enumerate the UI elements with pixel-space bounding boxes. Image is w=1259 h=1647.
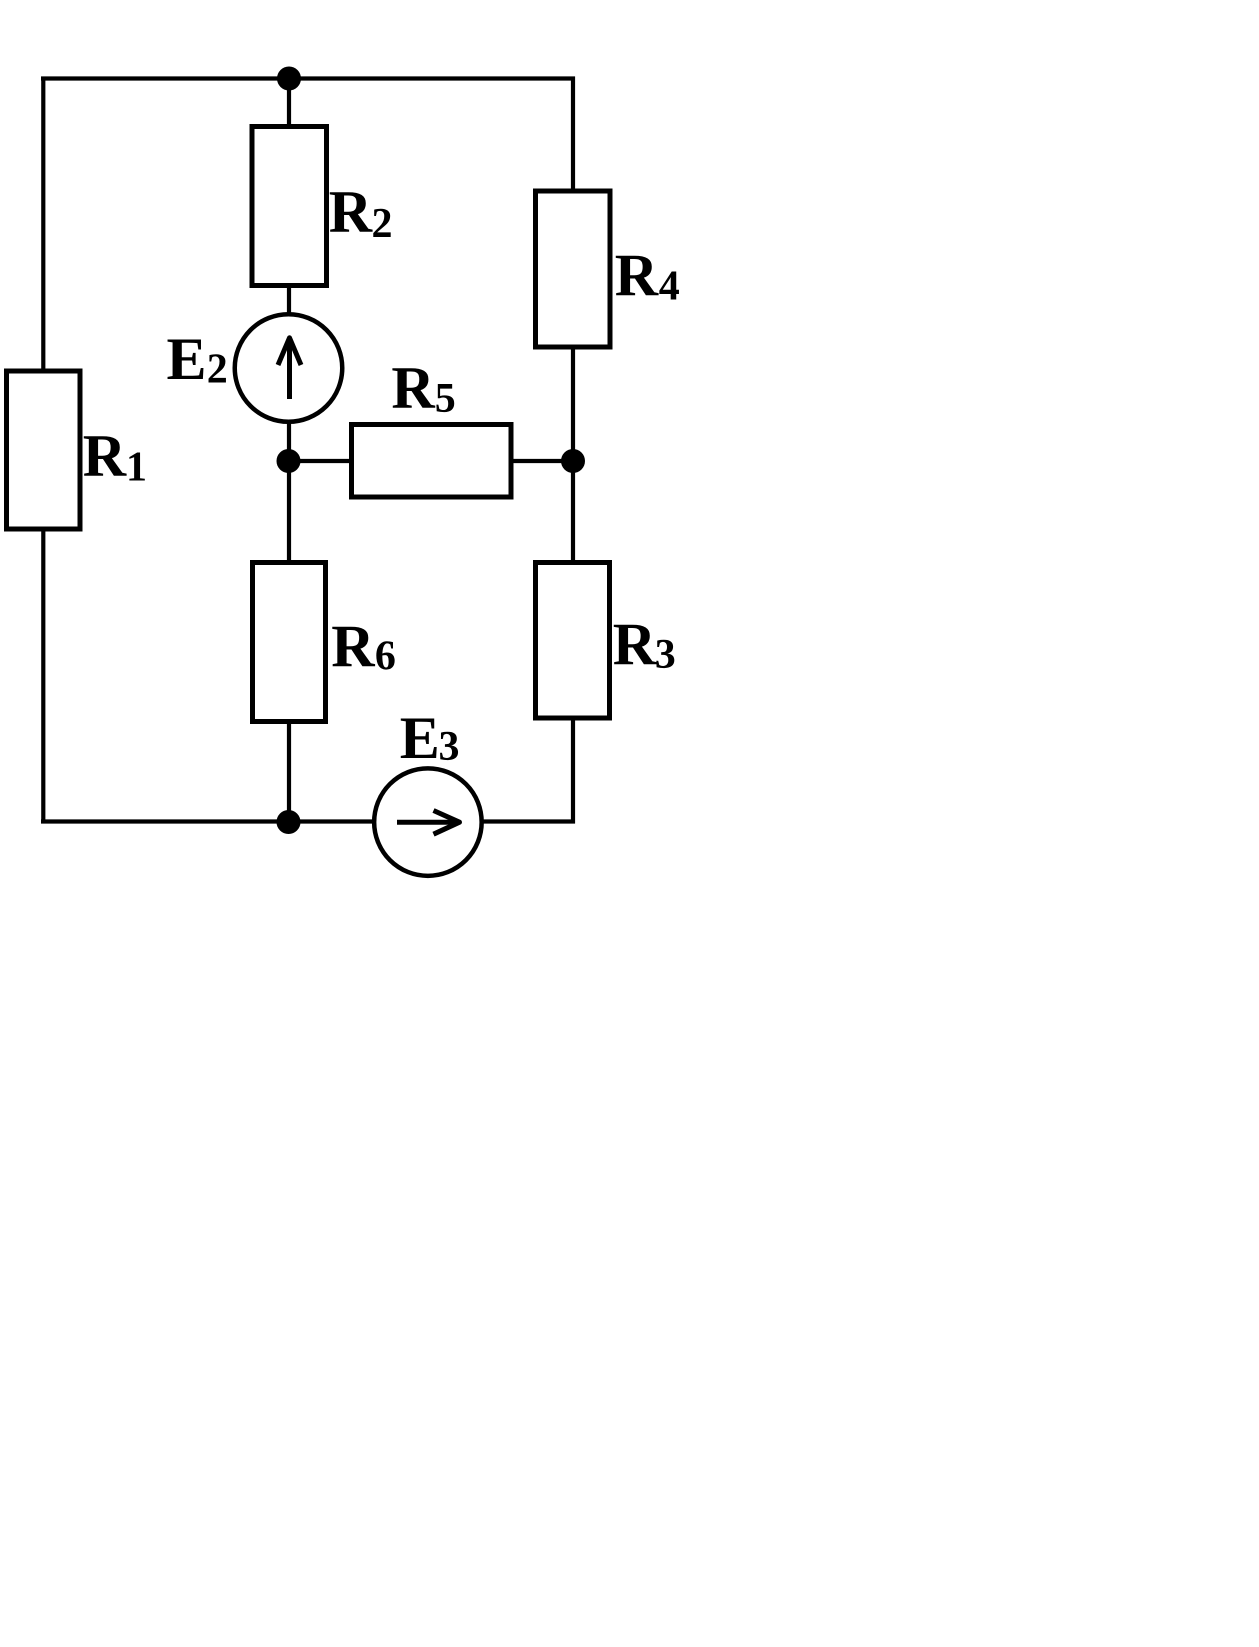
resistor R2 <box>252 127 327 286</box>
resistor R3 <box>536 563 610 719</box>
node middle-right junction <box>561 449 585 473</box>
svg-text:2: 2 <box>207 347 228 393</box>
resistor R1 <box>7 371 81 529</box>
source E3 <box>374 768 482 876</box>
svg-text:R: R <box>615 243 659 309</box>
svg-text:5: 5 <box>435 376 456 422</box>
node bottom junction <box>277 810 301 834</box>
svg-text:R: R <box>391 355 435 421</box>
resistor R5 <box>352 425 512 498</box>
svg-text:E: E <box>167 326 207 392</box>
svg-text:R: R <box>331 613 375 679</box>
wire middle column <box>287 79 291 822</box>
source E3 arrow <box>397 820 456 825</box>
node top junction <box>277 67 301 91</box>
svg-text:R: R <box>83 423 127 489</box>
svg-text:E: E <box>400 705 440 771</box>
wire middle horizontal <box>289 459 573 463</box>
svg-text:3: 3 <box>439 724 460 770</box>
source E2 arrow <box>287 341 292 399</box>
svg-text:R: R <box>613 611 657 677</box>
wire left vertical <box>41 77 45 824</box>
svg-text:6: 6 <box>375 633 396 679</box>
wire top horizontal <box>41 76 575 80</box>
source E2 <box>235 314 343 422</box>
svg-text:R: R <box>329 179 373 245</box>
svg-text:3: 3 <box>655 632 676 678</box>
svg-text:1: 1 <box>126 445 147 491</box>
svg-text:2: 2 <box>372 201 393 247</box>
wire bottom horizontal <box>41 819 575 823</box>
node middle-left junction <box>277 449 301 473</box>
svg-text:4: 4 <box>659 264 680 310</box>
resistor R6 <box>253 563 326 722</box>
wire right vertical <box>571 77 575 824</box>
resistor R4 <box>536 191 611 347</box>
